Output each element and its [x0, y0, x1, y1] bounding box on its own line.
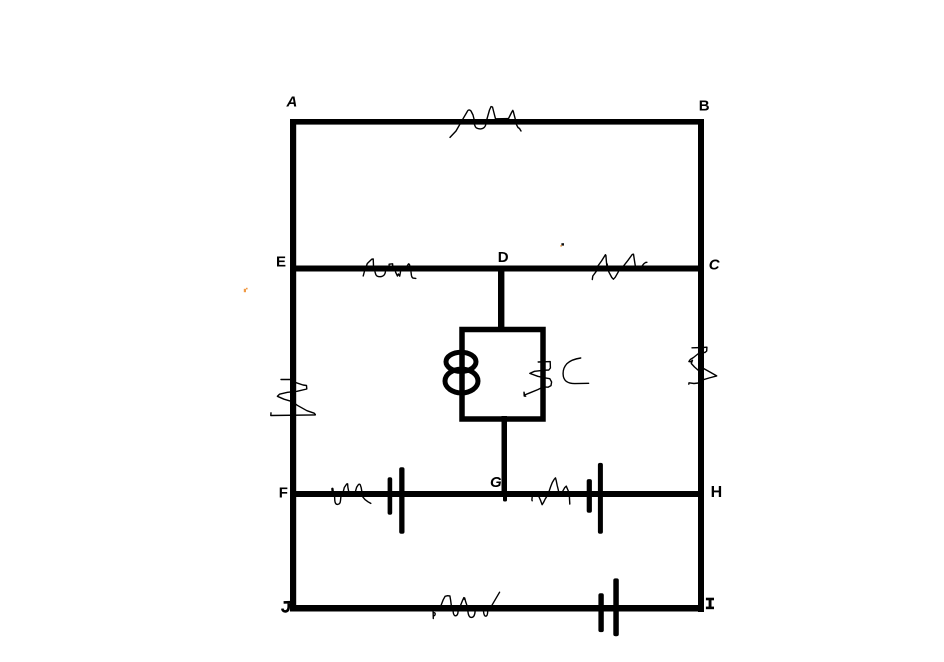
svg-text:E: E — [276, 254, 286, 271]
svg-text:F: F — [279, 484, 288, 501]
svg-text:B: B — [699, 97, 710, 114]
svg-text:C: C — [709, 257, 721, 274]
svg-text:D: D — [498, 249, 509, 266]
svg-text:A: A — [286, 93, 298, 110]
svg-text:H: H — [711, 484, 723, 501]
svg-text:G: G — [490, 474, 502, 491]
